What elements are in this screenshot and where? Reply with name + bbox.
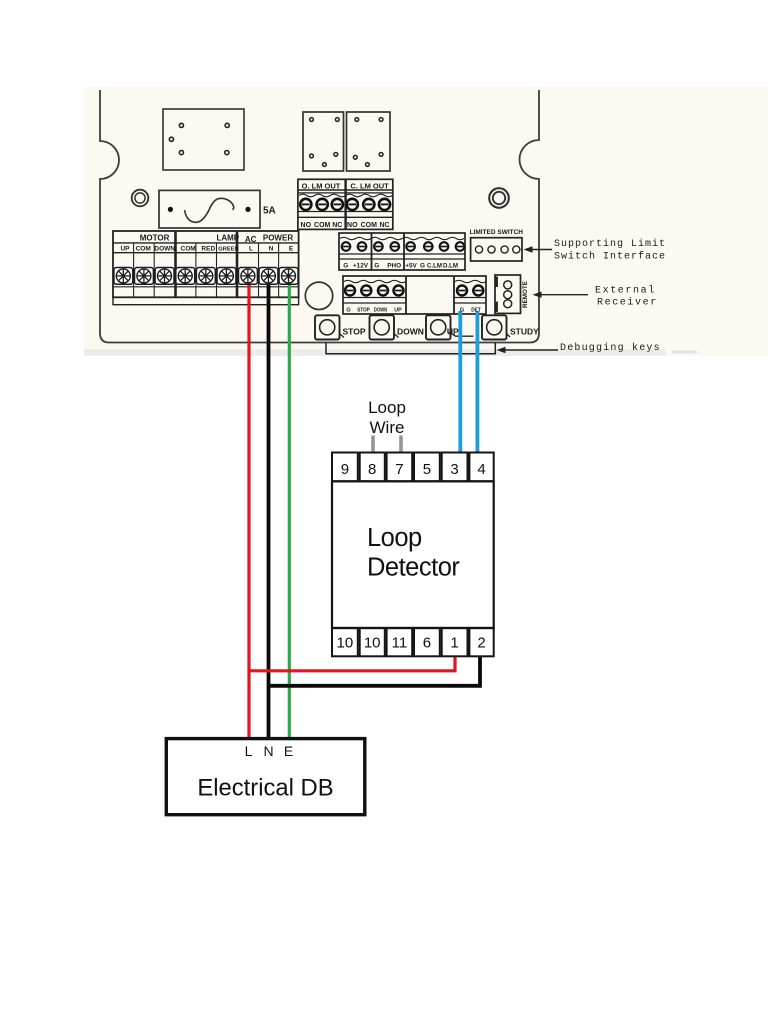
svg-text:NO: NO <box>347 222 358 229</box>
wire blue G to pin 3 <box>458 311 462 453</box>
svg-text:7: 7 <box>395 461 403 478</box>
svg-text:COM: COM <box>181 246 196 253</box>
svg-text:D.LM: D.LM <box>443 263 458 270</box>
svg-text:Supporting Limit: Supporting Limit <box>554 238 666 250</box>
electrical DB box <box>166 739 364 815</box>
scanner artifact gray band <box>84 349 666 356</box>
svg-text:STOP: STOP <box>357 307 370 313</box>
wire blue DET to pin 4 <box>475 311 479 453</box>
interface strip screws <box>342 242 465 251</box>
debugging keys bracket <box>326 343 495 354</box>
svg-text:Electrical DB: Electrical DB <box>197 774 333 801</box>
svg-text:C. LM OUT: C. LM OUT <box>350 182 389 191</box>
svg-text:UP: UP <box>120 246 130 253</box>
svg-text:E: E <box>289 246 294 253</box>
svg-text:Loop: Loop <box>367 524 422 552</box>
fuse F1 5A <box>159 190 260 228</box>
svg-text:G: G <box>346 307 351 313</box>
remote receiver connector J2 <box>495 275 521 313</box>
annotation texts <box>554 238 666 354</box>
O.LM screws <box>300 199 343 210</box>
svg-text:9: 9 <box>341 461 349 478</box>
svg-text:COM: COM <box>361 222 378 229</box>
svg-text:N: N <box>263 743 273 759</box>
svg-text:LIMITED SWITCH: LIMITED SWITCH <box>470 229 524 236</box>
arrow to limit switch <box>524 246 553 252</box>
svg-text:PHO: PHO <box>387 263 401 270</box>
svg-text:STOP: STOP <box>343 327 366 337</box>
svg-text:COM: COM <box>314 222 331 229</box>
svg-text:G: G <box>420 263 425 270</box>
svg-text:NC: NC <box>379 222 389 229</box>
svg-text:Receiver: Receiver <box>597 297 658 309</box>
svg-text:DOWN: DOWN <box>154 246 175 253</box>
svg-text:O. LM OUT: O. LM OUT <box>302 182 341 191</box>
svg-text:L: L <box>245 743 253 759</box>
mounting hole right <box>489 188 509 208</box>
svg-text:5: 5 <box>423 461 431 478</box>
svg-text:2: 2 <box>477 635 485 652</box>
svg-text:E: E <box>284 743 293 759</box>
debug strip screws <box>345 286 483 296</box>
svg-text:GREEN: GREEN <box>218 247 239 253</box>
svg-text:DET: DET <box>471 307 481 313</box>
control board outline <box>100 90 539 343</box>
svg-text:Loop: Loop <box>368 398 406 417</box>
wire black branch to loop detector pin 2 <box>269 657 481 686</box>
svg-text:Debugging keys: Debugging keys <box>560 342 661 354</box>
board center hole <box>305 282 332 309</box>
main terminal strip MOTOR/LAMP/AC POWER <box>113 231 299 305</box>
relay K1 <box>303 112 344 171</box>
svg-text:External: External <box>595 285 656 297</box>
button UP <box>426 315 473 339</box>
svg-text:NC: NC <box>332 222 342 229</box>
svg-text:4: 4 <box>477 461 485 478</box>
svg-text:UP: UP <box>447 327 459 337</box>
svg-text:RED: RED <box>201 246 215 253</box>
svg-text:UP: UP <box>394 307 402 313</box>
svg-text:5A: 5A <box>263 206 276 217</box>
svg-text:DOWN: DOWN <box>397 327 424 337</box>
svg-text:1: 1 <box>450 635 458 652</box>
C.LM screws <box>347 199 390 210</box>
svg-text:10: 10 <box>337 635 354 652</box>
svg-text:8: 8 <box>368 461 376 478</box>
loop wire stub gray left <box>371 436 375 453</box>
loop wire stub gray right <box>399 436 403 453</box>
arrow to remote receiver <box>533 292 589 298</box>
svg-text:Detector: Detector <box>367 554 460 582</box>
svg-text:N: N <box>269 246 274 253</box>
relay K2 <box>347 112 391 171</box>
mounting hole left <box>132 190 149 207</box>
limit-output terminal block O.LM/C.LM <box>298 179 393 229</box>
loop detector body <box>332 481 494 628</box>
svg-text:10: 10 <box>364 635 381 652</box>
svg-text:G: G <box>460 307 465 313</box>
loop detector top pin row <box>332 453 494 482</box>
interface strip G +12V / G PHO / +5V G C.LM D.LM <box>339 233 465 270</box>
svg-text:G: G <box>374 263 379 270</box>
svg-text:POWER: POWER <box>263 233 293 242</box>
svg-text:+12V: +12V <box>353 263 369 270</box>
svg-text:L: L <box>249 246 253 253</box>
button STUDY <box>482 315 510 339</box>
svg-text:3: 3 <box>450 461 458 478</box>
button DOWN <box>370 315 399 339</box>
loop detector bottom pin row <box>332 628 494 656</box>
svg-text:C.LM: C.LM <box>427 263 442 270</box>
wire red branch to loop detector pin 1 <box>249 657 455 671</box>
scanned paper cream tint <box>84 87 768 356</box>
svg-text:DOWN: DOWN <box>374 307 388 313</box>
svg-text:LAMP: LAMP <box>216 233 239 242</box>
svg-text:AC: AC <box>245 235 257 244</box>
limit switch connector J1 <box>471 238 522 261</box>
svg-text:MOTOR: MOTOR <box>140 233 170 242</box>
button STOP <box>315 315 344 339</box>
svg-text:6: 6 <box>423 635 431 652</box>
svg-text:11: 11 <box>392 635 408 652</box>
transformer T1 <box>163 109 244 170</box>
svg-text:COM: COM <box>136 246 151 253</box>
svg-text:G: G <box>343 263 348 270</box>
main strip screw terminals <box>114 268 298 285</box>
svg-text:REMOTE: REMOTE <box>522 281 529 308</box>
wire earth green E <box>288 273 291 739</box>
svg-text:Wire: Wire <box>370 418 405 437</box>
arrow to debugging bracket <box>497 347 559 353</box>
wire live red L <box>247 273 250 739</box>
svg-text:NO: NO <box>301 222 312 229</box>
svg-text:Switch Interface: Switch Interface <box>554 251 666 263</box>
wire neutral black N <box>267 273 271 739</box>
debug strip G STOP DOWN UP / G DET <box>343 276 486 314</box>
svg-text:+5V: +5V <box>405 263 417 270</box>
svg-text:STUDY: STUDY <box>510 327 539 337</box>
